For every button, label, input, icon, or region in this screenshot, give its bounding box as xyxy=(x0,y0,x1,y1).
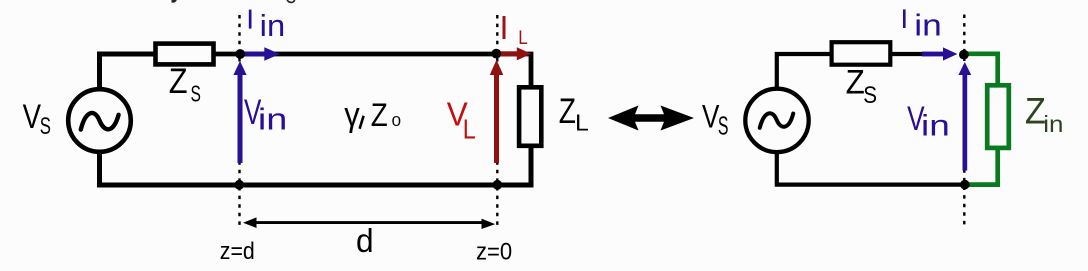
resistor ZS (right) xyxy=(832,42,891,64)
svg-text:Z: Z xyxy=(846,63,865,101)
svg-text:L: L xyxy=(463,113,476,144)
node right top (964,54.5) xyxy=(959,50,969,60)
dimension arrow d xyxy=(243,217,495,229)
cropped text fragment B (top edge, g descender) xyxy=(287,0,295,2)
resistor Zin (green) xyxy=(987,85,1009,148)
svg-text:Z: Z xyxy=(559,92,576,131)
wire: bottom line + ZL bottom xyxy=(100,147,532,185)
node bottom-left (240,185) xyxy=(234,180,244,190)
blue arrow I in (right) xyxy=(922,47,957,60)
dashed line right circuit (x=964.3) xyxy=(963,15,965,230)
voltage source VS (right) xyxy=(745,89,808,152)
svg-text:S: S xyxy=(191,81,201,107)
svg-text:z=0: z=0 xyxy=(476,238,512,265)
svg-text:S: S xyxy=(718,113,729,141)
svg-text:z=d: z=d xyxy=(220,238,255,265)
node bottom-right (497.5,185) xyxy=(493,180,503,190)
svg-text:V: V xyxy=(23,98,42,136)
svg-text:Z: Z xyxy=(371,97,388,133)
label I in (left, blue) xyxy=(249,10,252,29)
svg-text:S: S xyxy=(863,82,877,109)
wire: left top (source to resistor ZS) xyxy=(100,54,156,88)
blue arrow Vin (left) xyxy=(233,61,246,163)
wire: right top (source to resistor) xyxy=(777,54,831,88)
dashed line z=d (x=239.5) xyxy=(238,15,240,227)
svg-text:in: in xyxy=(260,8,286,43)
dashed line z=0 (x=497.3) xyxy=(496,15,498,229)
svg-text:L: L xyxy=(575,110,589,136)
svg-text:S: S xyxy=(40,113,51,140)
wire: top line (resistor ZS to ZL corner) xyxy=(214,54,531,86)
svg-text:L: L xyxy=(518,27,528,49)
resistor ZL xyxy=(519,87,541,146)
equivalence double arrow xyxy=(608,106,694,131)
svg-text:γ: γ xyxy=(344,96,360,134)
blue arrow Vin (right) xyxy=(958,62,971,171)
wire: right bottom xyxy=(777,152,962,185)
svg-text:d: d xyxy=(356,222,374,259)
svg-text:in: in xyxy=(914,7,942,42)
cropped text fragment A (top edge) xyxy=(172,0,177,3)
svg-text:in: in xyxy=(1043,111,1063,137)
green wire: Zin bottom to node xyxy=(963,147,998,185)
resistor ZS (left) xyxy=(156,44,214,65)
svg-text:Z: Z xyxy=(169,62,188,101)
svg-text:0: 0 xyxy=(392,113,401,130)
label I L (red) xyxy=(503,16,506,39)
node top-left (240,54) xyxy=(235,49,245,59)
red arrow I L xyxy=(499,47,531,60)
blue arrow I in (left) xyxy=(243,47,280,60)
label I in (right, blue) xyxy=(903,9,906,28)
red arrow V L xyxy=(490,60,504,163)
node top-right (497.5,54) xyxy=(491,49,501,59)
node right bottom (964.8,184.6) xyxy=(960,180,970,190)
svg-text:in: in xyxy=(921,109,950,142)
svg-text:in: in xyxy=(258,101,288,136)
wire: resistor to node xyxy=(890,52,930,56)
voltage source VS (left) xyxy=(68,89,131,152)
green wire: node to Zin top xyxy=(963,54,998,86)
